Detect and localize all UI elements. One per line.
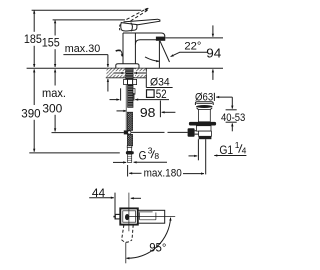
dimension max.30 lower arrow: [107, 79, 109, 92]
plan view head block: [120, 208, 138, 224]
dimension 44 right arrow: [131, 197, 141, 199]
svg-text:300: 300: [42, 102, 62, 116]
diam34 label underline: [146, 87, 172, 89]
tailpipe left wall: [197, 139, 199, 160]
G3/8 right arrow + underline: [134, 161, 167, 163]
square52 right arrow + underline: [135, 99, 169, 101]
svg-text:185: 185: [24, 32, 42, 46]
G3/8 slash: [151, 150, 155, 158]
pop-up rod tee: [124, 130, 130, 134]
raised lever dashed line 1: [127, 8, 148, 19]
G3/8 left arrow: [113, 161, 126, 163]
svg-text:Ø34: Ø34: [150, 76, 170, 88]
diam63 extension tick: [213, 93, 215, 101]
plan view spout tick: [113, 216, 115, 218]
handle left dashed arc: [118, 24, 121, 31]
knob link: [195, 131, 199, 134]
svg-text:max.30: max.30: [65, 43, 100, 55]
dimension 155 vertical line: [54, 20, 56, 35]
drain dark band: [199, 136, 212, 139]
svg-text:8: 8: [154, 151, 159, 161]
text labels: [21, 32, 66, 120]
deck box right edge / label riser: [145, 68, 147, 87]
svg-text:G: G: [139, 149, 147, 163]
svg-text:G1: G1: [219, 143, 233, 157]
dimension max.30 upper arrow: [107, 55, 109, 67]
water stream 22 degree line: [160, 41, 170, 62]
svg-text:22°: 22°: [184, 41, 201, 53]
max.180 left extension line: [127, 165, 129, 177]
mounting nut: [124, 79, 137, 84]
supply hose braided upper: [127, 112, 132, 130]
supply hose braided lower: [127, 134, 132, 145]
svg-text:94: 94: [206, 46, 221, 61]
faucet body column: [123, 33, 135, 64]
plan view spout hole: [125, 214, 129, 220]
tailpipe center line: [205, 139, 207, 174]
dimension 98 right extension line: [159, 101, 161, 118]
dimension 185 top extension line: [32, 9, 142, 11]
deck hatch left: [107, 69, 126, 78]
rotated handle dashed left: [122, 225, 124, 240]
plan view lever inner lines: [140, 213, 156, 220]
faucet base flange: [116, 64, 139, 68]
22 degree label underline: [179, 51, 207, 53]
dimension 155 top extension line: [53, 19, 125, 21]
svg-text:95°: 95°: [149, 242, 166, 255]
rotated handle dashed bottom: [122, 240, 132, 242]
square52 symbol: [147, 90, 155, 98]
svg-text:390: 390: [21, 106, 40, 120]
rotated handle dashed right: [132, 225, 133, 240]
dimension 390 bottom reference line: [29, 152, 120, 154]
svg-text:44: 44: [92, 187, 106, 200]
40-53 lower arrow: [231, 123, 233, 131]
pop-up rod vertical: [125, 85, 127, 130]
dimension 94 extension line: [165, 37, 223, 39]
plan view lever: [138, 210, 165, 223]
water stream vertical line: [158, 41, 160, 68]
rod guide block: [133, 89, 135, 95]
drain mid body: [196, 126, 211, 131]
drain lower body: [199, 131, 212, 136]
center line through plan view: [128, 193, 130, 232]
max.180 dimension line right: [183, 173, 204, 175]
diam63 arrow: [216, 96, 232, 98]
svg-text:max.: max.: [42, 86, 66, 100]
40-53 lower extension line: [226, 121, 237, 123]
square52 left arrow: [110, 99, 120, 101]
22 degree arc with arrow: [145, 57, 159, 61]
dimension max.30 label underline: [63, 54, 108, 56]
plan view head inner outline: [123, 211, 136, 222]
pop-up horizontal rod segment 1: [131, 131, 165, 133]
G1 1/4 slash: [239, 144, 242, 152]
spout: [123, 33, 165, 45]
svg-text:Ø63: Ø63: [195, 92, 213, 104]
max.180 dimension line left: [129, 172, 141, 174]
hose nut: [126, 151, 134, 154]
svg-text:max.180: max.180: [144, 167, 182, 179]
plan view spout protrusion: [115, 214, 120, 219]
threaded shank lower: [128, 85, 133, 108]
lever blade: [124, 19, 160, 25]
plan view lever shaded strip: [138, 211, 152, 213]
dimension max.300 vertical line: [54, 69, 56, 85]
deck top line: [27, 67, 223, 69]
handle body: [121, 23, 137, 31]
svg-text:40-53: 40-53: [221, 112, 245, 124]
dimension 98 left arrow: [117, 110, 127, 112]
threaded shank upper: [126, 68, 133, 79]
drain seal flange: [189, 122, 216, 126]
dimension square52 right ext line: [133, 93, 135, 101]
pop-up rod knob: [188, 128, 195, 137]
dimension square52 left ext line: [120, 88, 122, 100]
40-53 upper extension line: [226, 109, 237, 111]
drain flange inner line: [196, 103, 212, 105]
dimension 94 lower arrow: [212, 69, 214, 80]
dimension 390 vertical line: [33, 69, 35, 105]
plan view lever centerline: [129, 216, 175, 218]
95 degree arc bottom extension line: [125, 242, 127, 263]
hose step: [127, 146, 132, 148]
svg-text:4: 4: [242, 145, 247, 155]
40-53 upper arrow: [231, 97, 233, 109]
drain flange top: [195, 102, 213, 105]
raised lever tip arrow: [145, 8, 149, 11]
dimension 185 vertical line: [33, 11, 35, 32]
dimension diam34 arrows: [114, 71, 125, 74]
deck bottom line: [106, 77, 147, 79]
raised lever dashed line 2: [131, 10, 149, 21]
drain flange dark band: [196, 105, 213, 108]
svg-text:52: 52: [156, 89, 167, 101]
G1 1/4 left arrow: [189, 155, 198, 157]
hose pipe: [127, 147, 131, 151]
G3/8 threaded tip: [128, 154, 132, 162]
drain neck: [198, 110, 210, 122]
svg-text:155: 155: [42, 36, 60, 50]
handle lift curved arrow: [116, 49, 121, 52]
aerator: [156, 37, 165, 41]
dimension max.300 bottom reference line: [52, 132, 124, 134]
dimension 44 left ext line: [114, 193, 116, 220]
dimension 98 right arrow: [162, 111, 176, 113]
pop-up horizontal rod segment 2: [168, 131, 188, 133]
handle inner arc: [131, 23, 133, 32]
95 degree arc: [126, 218, 170, 259]
deck hatch right: [135, 69, 146, 78]
svg-text:3: 3: [148, 146, 153, 156]
dimension 94 upper arrow: [212, 25, 214, 36]
dimension 44 line: [89, 197, 114, 199]
svg-text:1: 1: [235, 140, 240, 150]
22 degree leader: [171, 52, 180, 56]
svg-text:98: 98: [140, 105, 156, 120]
drain flange taper: [197, 108, 213, 110]
G1 1/4 right arrow + underline: [214, 155, 246, 157]
